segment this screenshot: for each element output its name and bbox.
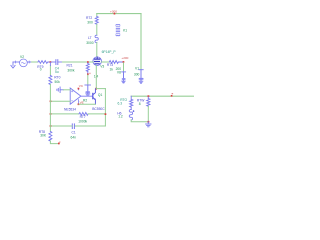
- wire plate column top: [96, 14, 98, 17]
- wire tube g2 to RT3: [101, 61, 109, 63]
- node dot C1 left junction: [50, 125, 52, 127]
- wire H6 bottom: [131, 120, 148, 122]
- svg-text:6.3: 6.3: [118, 102, 123, 106]
- svg-text:V1: V1: [135, 66, 139, 70]
- svg-text:NE5534: NE5534: [64, 107, 76, 111]
- wire RTW bottom: [147, 106, 149, 122]
- coupling K1 core symbol: [116, 24, 120, 35]
- tiny red node label at output: [172, 93, 174, 94]
- ground (op-amp + input): [57, 87, 64, 93]
- inductor H6: [129, 109, 132, 119]
- capacitor C1: [72, 124, 74, 129]
- polarity dot (H6): [133, 110, 135, 112]
- wire emitter to op-amp VE: [79, 103, 95, 105]
- svg-text:Q1: Q1: [98, 93, 103, 97]
- wire top +300 rail: [97, 13, 141, 15]
- wire grid net: [62, 61, 93, 63]
- node dot op-amp V+ pin: [78, 88, 80, 90]
- wire C1 row left: [50, 125, 72, 127]
- svg-text:1000k: 1000k: [78, 119, 87, 123]
- node +300 junction dot: [114, 13, 116, 15]
- wire C1 row right: [75, 125, 106, 127]
- wire R21 to VC battery: [87, 75, 89, 85]
- wire right rail down to V1: [140, 14, 142, 69]
- node dot op-amp V- pin: [78, 103, 80, 105]
- resistor RT7: [79, 113, 88, 116]
- wire LT to tube plate: [96, 43, 98, 58]
- svg-text:R2: R2: [83, 98, 87, 102]
- resistor RT9: [38, 61, 50, 64]
- node dot dangling: [58, 143, 60, 145]
- op-amp U1 NE5534: [70, 88, 81, 104]
- node cathode junction dot: [95, 88, 97, 90]
- svg-text:VC: VC: [79, 84, 84, 88]
- transistor Q1 BC550C: [92, 89, 96, 104]
- node dot feedback junction: [105, 113, 107, 115]
- wire feedback RT7 row: [50, 113, 79, 115]
- ground (V8): [122, 80, 126, 83]
- wire RT7 to output column: [88, 113, 105, 115]
- node dot secondary bottom: [148, 121, 150, 123]
- wire cathode to output column: [96, 88, 105, 90]
- node junction dot (RT9/C4/RT0): [50, 61, 52, 63]
- node dot RTW top junction: [148, 95, 150, 97]
- svg-text:+300: +300: [110, 9, 117, 13]
- node output dot: [171, 95, 173, 97]
- tube V3 (6P14P_P): [93, 57, 102, 66]
- wire RT2 to LT: [96, 24, 98, 35]
- wire V2 source row: [31, 61, 38, 63]
- wire cathode down: [95, 65, 97, 88]
- inductor LT: [95, 35, 98, 42]
- resistor RT3: [109, 61, 123, 64]
- wire left column (RT0 chain): [49, 66, 51, 76]
- node grid junction dot: [87, 61, 89, 63]
- svg-text:3000: 3000: [86, 41, 94, 45]
- svg-text:8: 8: [139, 102, 141, 106]
- svg-text:LT: LT: [88, 36, 92, 40]
- svg-text:5u: 5u: [55, 70, 59, 74]
- node dot -in junction: [50, 100, 52, 102]
- svg-text:R21: R21: [67, 64, 73, 68]
- ground (secondary): [146, 122, 151, 127]
- wire RT8 bottom: [50, 141, 58, 144]
- resistor R21: [86, 63, 89, 74]
- svg-text:300: 300: [134, 73, 140, 77]
- wire RT0 down through junctions: [49, 85, 51, 132]
- svg-text:V8: V8: [117, 70, 121, 74]
- svg-text:64n: 64n: [71, 136, 77, 140]
- wire secondary top: [131, 95, 194, 97]
- svg-text:300k: 300k: [67, 69, 75, 73]
- resistor RT8: [49, 132, 52, 142]
- svg-text:6P14P_P: 6P14P_P: [102, 50, 117, 54]
- ground (V2): [11, 62, 15, 68]
- svg-text:1k: 1k: [110, 68, 114, 72]
- node dot (R21/VC battery): [87, 73, 89, 75]
- svg-text:RT2: RT2: [86, 16, 92, 20]
- node dot RT7 left junction: [50, 113, 52, 115]
- capacitor C4: [51, 60, 62, 65]
- resistor RT2: [95, 16, 98, 24]
- resistor RT0: [49, 76, 52, 85]
- svg-text:RT3: RT3: [107, 63, 113, 67]
- tiny red tick above dangling dot: [59, 142, 60, 143]
- wire output column down: [104, 89, 106, 126]
- wire op-amp -in: [50, 100, 70, 102]
- svg-text:1.2: 1.2: [118, 115, 123, 119]
- svg-text:30K: 30K: [40, 134, 47, 138]
- wire ground to op-amp +in: [64, 89, 71, 91]
- svg-text:300: 300: [87, 21, 93, 25]
- svg-text:+200: +200: [121, 56, 128, 60]
- battery V8: [122, 63, 126, 80]
- svg-text:50k: 50k: [55, 80, 61, 84]
- battery V1: [139, 70, 144, 81]
- node +200 junction dot: [123, 61, 125, 63]
- svg-text:K1: K1: [123, 29, 127, 33]
- tiny red node tick: [89, 73, 90, 74]
- resistor RTO: [130, 96, 133, 109]
- svg-text:V3: V3: [100, 65, 104, 69]
- svg-text:RT7: RT7: [80, 115, 86, 119]
- source V2: [13, 59, 31, 67]
- battery VC bias: [85, 85, 91, 94]
- svg-text:V2: V2: [20, 55, 24, 59]
- svg-text:RT0: RT0: [54, 76, 60, 80]
- wire op-amp output to Q1 base: [81, 95, 92, 97]
- ground (V1): [139, 81, 143, 83]
- svg-text:0: 0: [40, 68, 42, 72]
- ground (VC battery): [86, 94, 90, 96]
- svg-text:BC550C: BC550C: [92, 107, 105, 111]
- resistor RTW: [147, 97, 150, 106]
- svg-text:C1: C1: [72, 130, 76, 134]
